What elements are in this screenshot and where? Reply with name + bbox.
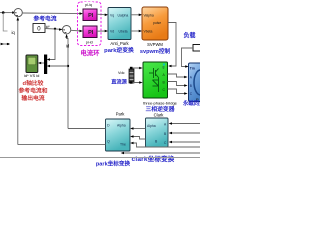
wire speed from edge bbox=[122, 152, 200, 154]
wire iq* input from left edge bbox=[0, 12, 14, 14]
node junction id* bbox=[54, 28, 56, 30]
wire id to mux bbox=[49, 65, 69, 67]
svg-text:Clark: Clark bbox=[154, 112, 165, 117]
wire PI2 to AntiPark bbox=[97, 30, 107, 32]
svg-text:Ualpha: Ualpha bbox=[118, 14, 129, 18]
svg-text:永磁同步: 永磁同步 bbox=[182, 99, 200, 107]
wire Ubeta to SVPWM bbox=[131, 30, 141, 32]
wire 0 to S2 bbox=[45, 28, 62, 31]
wire Park Q to iq vertical bbox=[18, 144, 106, 146]
svg-text:Vq: Vq bbox=[110, 14, 114, 18]
svg-text:Alpha: Alpha bbox=[147, 124, 156, 128]
svg-text:直流源: 直流源 bbox=[111, 78, 127, 86]
svg-text:Alpha: Alpha bbox=[117, 123, 126, 127]
wire id feedback vertical bbox=[67, 37, 68, 128]
svg-text:PI: PI bbox=[88, 30, 94, 36]
wire S1 to PI1 bbox=[22, 12, 81, 15]
current-loop dashed box bbox=[78, 2, 102, 46]
svg-text:B: B bbox=[164, 132, 166, 136]
svg-text:Valpha: Valpha bbox=[144, 14, 154, 18]
svg-text:three-phase-bridge: three-phase-bridge bbox=[143, 101, 178, 106]
svg-text:pi-iq: pi-iq bbox=[85, 3, 92, 7]
wire id* down to mux bbox=[49, 29, 56, 60]
svg-text:pi-id: pi-id bbox=[86, 41, 93, 45]
mux M1 bbox=[44, 55, 47, 75]
svg-text:D: D bbox=[107, 123, 110, 127]
svg-text:Anti_Park: Anti_Park bbox=[110, 41, 129, 46]
sum junction S2 (id) bbox=[59, 28, 62, 31]
wire Clark beta to Park bbox=[134, 137, 146, 140]
node junction id to mux bbox=[67, 65, 69, 67]
PI controller PI2 bbox=[83, 26, 97, 38]
SVPWM block U2 bbox=[142, 7, 168, 40]
wire bridge A to PMSM A bbox=[168, 74, 186, 77]
svg-text:park坐标变换: park坐标变换 bbox=[96, 160, 131, 168]
constant 0 block bbox=[33, 24, 45, 33]
wire pulse to bridge g bbox=[168, 23, 176, 67]
load torque block bbox=[193, 45, 203, 52]
wire S2 to PI2 bbox=[71, 29, 82, 32]
wire bridge B to PMSM B bbox=[168, 82, 186, 86]
node pi-id label bbox=[84, 39, 95, 45]
svg-text:Ubeta: Ubeta bbox=[119, 30, 128, 34]
wire bottom long feedback bbox=[0, 157, 200, 159]
wire mux to scope bbox=[39, 62, 44, 64]
sum junction S1 (iq) bbox=[12, 11, 15, 14]
wire PI1 to AntiPark bbox=[97, 13, 107, 16]
wire iq feedback vertical bbox=[17, 20, 19, 144]
PI controller PI1 bbox=[83, 9, 97, 21]
svg-text:id* VS id: id* VS id bbox=[24, 73, 39, 78]
wire phase a from edge to Clark A bbox=[172, 123, 201, 125]
svg-text:PI: PI bbox=[88, 13, 94, 19]
DC source Vdc bbox=[129, 69, 134, 83]
Park transform U6 bbox=[106, 119, 131, 151]
svg-text:Park: Park bbox=[116, 111, 126, 116]
wire Vdc- to bridge bbox=[132, 82, 142, 85]
wire stub out left at y44 bbox=[4, 43, 11, 45]
wire phase c from edge to Clark C bbox=[172, 141, 201, 143]
svg-text:参考电流: 参考电流 bbox=[33, 15, 56, 23]
svg-text:Vbeta: Vbeta bbox=[144, 30, 153, 34]
svg-text:d轴比较: d轴比较 bbox=[23, 79, 44, 87]
svg-text:SVPWM: SVPWM bbox=[147, 42, 163, 47]
Anti_Park block U1 bbox=[108, 8, 131, 40]
svg-text:负载: 负载 bbox=[183, 32, 195, 40]
svg-text:Q: Q bbox=[107, 139, 110, 143]
svg-text:参考电流和: 参考电流和 bbox=[19, 87, 48, 95]
wire theta from edge to Park The bbox=[134, 143, 201, 147]
svg-text:pulse: pulse bbox=[153, 21, 161, 25]
scope id* VS id bbox=[26, 55, 38, 73]
three-phase bridge U3 bbox=[143, 62, 168, 98]
Clark transform U5 bbox=[146, 118, 169, 147]
node input junction bbox=[2, 11, 5, 14]
wire Park D to id vertical bbox=[68, 128, 106, 130]
svg-text:park逆变换: park逆变换 bbox=[104, 46, 134, 54]
IGBT icon inside bridge bbox=[149, 68, 159, 92]
svg-text:输出电流: 输出电流 bbox=[21, 94, 44, 102]
wire bridge C to PMSM C bbox=[168, 89, 186, 94]
svg-text:B: B bbox=[190, 84, 192, 88]
svg-text:svpwm控制: svpwm控制 bbox=[140, 47, 171, 55]
svg-text:电流环: 电流环 bbox=[80, 48, 100, 57]
svg-text:clark坐标变换: clark坐标变换 bbox=[132, 154, 175, 163]
wire Vdc+ to bridge bbox=[132, 68, 142, 69]
svg-text:Vdc: Vdc bbox=[118, 71, 125, 75]
wire left edge vertical bbox=[3, 13, 7, 31]
PMSM motor block U4 bbox=[189, 63, 203, 102]
wire Ualpha to SVPWM bbox=[131, 14, 141, 16]
svg-text:g: g bbox=[163, 65, 165, 69]
wire Clark alpha to Park bbox=[132, 128, 146, 130]
wire load to Tm bbox=[182, 48, 194, 67]
node pi-iq label bbox=[84, 2, 94, 7]
svg-text:The: The bbox=[120, 142, 126, 146]
svg-text:Vd: Vd bbox=[110, 30, 114, 34]
svg-text:Tm: Tm bbox=[190, 67, 195, 71]
wire phase b from edge to Clark B bbox=[172, 132, 201, 134]
